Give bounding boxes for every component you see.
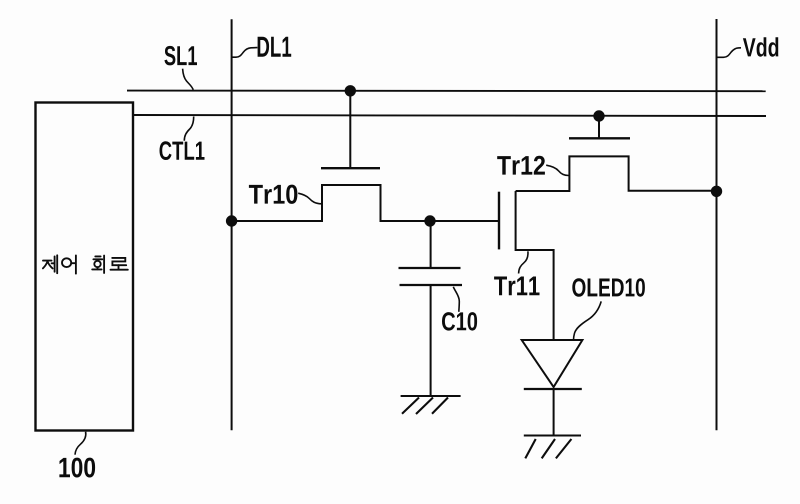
label Tr10 <box>249 185 298 204</box>
OLED diode OLED10 <box>522 340 583 436</box>
node: Tr12 gate junction on CTL1 <box>594 111 603 120</box>
transistor Tr10 gate bar <box>321 167 380 169</box>
wire DL1 data line <box>231 19 233 430</box>
leader for label Tr11 <box>519 251 528 273</box>
capacitor C10 top plate <box>399 267 461 269</box>
wire Vdd supply line <box>716 19 718 430</box>
leader for label C10 <box>453 287 459 312</box>
node: Tr10 gate junction on SL1 <box>346 86 355 95</box>
node: DL1 / Tr10 source junction <box>227 216 236 225</box>
node A: storage node junction <box>425 216 434 225</box>
node: Tr12 drain junction on Vdd <box>712 187 721 196</box>
ground under OLED10 <box>524 436 581 459</box>
transistor Tr12 gate bar <box>569 137 630 139</box>
leader for label Tr10 <box>298 193 321 204</box>
leader for label SL1 <box>183 69 194 90</box>
label CTL1 <box>160 141 205 160</box>
label Tr11 <box>494 277 539 296</box>
label OLED10 <box>572 278 645 297</box>
label Vdd <box>743 37 778 57</box>
label SL1 <box>164 46 197 66</box>
wire CTL1 bus <box>133 115 766 116</box>
label DL1 <box>258 37 292 57</box>
transistor Tr10 channel <box>232 185 498 221</box>
capacitor C10 bottom lead <box>430 285 432 396</box>
transistor Tr12 channel <box>516 156 717 191</box>
label C10 <box>442 312 477 331</box>
leader for label OLED10 <box>574 301 602 340</box>
transistor Tr11 channel <box>516 191 554 340</box>
capacitor C10 top lead <box>430 221 432 268</box>
leader for label Tr12 <box>546 165 568 175</box>
korean text: 제어 회로 (control circuit) <box>43 255 128 273</box>
leader for label Vdd <box>717 48 742 58</box>
leader for label DL1 <box>232 48 258 58</box>
label Tr12 <box>497 156 545 175</box>
ground under C10 <box>401 396 461 414</box>
leader for label CTL1 <box>184 117 193 141</box>
wire SL1 bus <box>127 90 766 93</box>
capacitor C10 bottom plate <box>400 284 463 286</box>
label 100 <box>59 458 95 478</box>
wire Tr10 gate lead <box>349 91 351 168</box>
control circuit box <box>36 103 134 431</box>
wire Tr12 gate lead <box>598 116 600 138</box>
transistor Tr11 gate bar <box>498 192 500 250</box>
leader for label 100 <box>75 432 86 455</box>
